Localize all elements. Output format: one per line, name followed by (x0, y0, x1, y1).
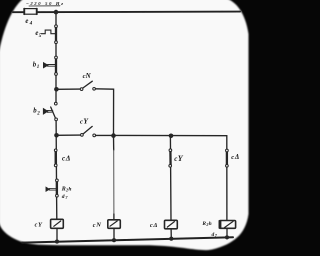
wire coil cN to bottom rail (113, 228, 115, 240)
node circle cY right (93, 134, 96, 137)
label R2h contact (61, 186, 72, 192)
node circle b1 top (55, 56, 58, 59)
wire coil cD to bottom rail (170, 229, 172, 239)
pushbutton b2 actuator (43, 109, 53, 115)
coil cD (165, 220, 178, 229)
wire V3 vertical (169, 136, 172, 221)
wire label underline (29, 5, 60, 7)
node circle V4 bottom (226, 164, 229, 167)
node circle b2 bottom (55, 118, 58, 121)
pushbutton b1 actuator (43, 63, 55, 68)
label b1 (33, 62, 40, 70)
node junction mid rail / V2 (111, 133, 116, 138)
label coil cD (150, 222, 157, 229)
node circle cN left (80, 88, 83, 91)
svg-text:4: 4 (29, 21, 33, 27)
contact b1 thick segment (55, 58, 57, 74)
svg-text:Δ: Δ (234, 153, 239, 161)
node circle R2h top (56, 179, 59, 182)
node junction mid rail / V3 (169, 134, 174, 139)
svg-text:c: c (62, 155, 65, 163)
contact cD left thick segment (55, 151, 57, 165)
label e4 (25, 18, 32, 27)
svg-text:e: e (25, 18, 28, 25)
node junction top rail / V1 (54, 10, 59, 15)
black photo background (0, 0, 256, 256)
node circle cN right (93, 87, 96, 90)
node circle cY left (81, 134, 84, 137)
svg-text:~220 50 Hz: ~220 50 Hz (26, 1, 63, 6)
contact b2 arm (51, 107, 56, 118)
wire V1 main vertical (55, 12, 58, 219)
white page with rounded corners (0, 0, 249, 250)
node circle V3 top (169, 149, 172, 152)
svg-text:Δ: Δ (152, 222, 157, 229)
svg-text:h: h (209, 221, 212, 227)
node circle b2 top (54, 102, 57, 105)
svg-text:N: N (85, 72, 92, 80)
contact cY V3 thick segment (169, 151, 172, 165)
label cD V4 (231, 153, 239, 161)
node circle R2h bottom (56, 194, 59, 197)
svg-text:Δ: Δ (65, 154, 71, 163)
label cD left (62, 154, 71, 163)
wire cN branch horizontal (56, 88, 80, 90)
label e5 (35, 30, 41, 39)
label b2 (33, 108, 40, 117)
label coil R2h (201, 221, 211, 227)
node circle e5 top (55, 25, 58, 28)
wire coil R2h to bottom rail (226, 228, 228, 237)
contact cD V4 thick segment (226, 151, 228, 165)
svg-text:N: N (95, 222, 101, 229)
label coil cN (93, 222, 101, 229)
node junction V1 / cN branch (54, 87, 59, 92)
coil cN (108, 220, 121, 229)
node circle b1 bottom (55, 73, 58, 76)
wire bottom rail (22, 237, 233, 242)
coil R2h d7 (219, 220, 236, 228)
svg-text:1: 1 (37, 65, 40, 70)
node circle V4 top (226, 149, 229, 152)
wire coil cY to bottom rail (56, 228, 58, 241)
fuse e4 (24, 9, 37, 15)
contact cY arm (83, 126, 92, 133)
wire V4 vertical (226, 136, 228, 221)
svg-text:h: h (68, 186, 71, 192)
label cY mid (80, 117, 89, 126)
label cN (83, 72, 92, 80)
wire top supply rail (13, 11, 240, 14)
node junction bottom rail / coil cD (169, 237, 173, 241)
node junction bottom rail / coil R2h (225, 235, 229, 239)
label ~220 50 Hz supply (26, 1, 63, 6)
node circle cD left bottom (54, 164, 57, 167)
contact e5 thick segment (55, 27, 57, 42)
contact R2h thick segment (56, 181, 58, 195)
label coil cY (35, 221, 43, 228)
node circle e5 bottom (55, 41, 58, 44)
label cY V3 (174, 154, 184, 163)
coil cY (51, 219, 64, 228)
wire V2 vertical to coil cN (113, 136, 115, 150)
wire mid rail right of cY contact (96, 134, 227, 136)
node junction bottom rail / coil cY (55, 240, 59, 244)
node junction bottom rail / coil cN (112, 238, 116, 242)
svg-text:d: d (62, 194, 65, 200)
pushbutton R2h actuator (46, 187, 56, 191)
wire cN to V2 corner (96, 89, 114, 136)
svg-text:c: c (231, 154, 234, 161)
node circle V3 bottom (169, 164, 172, 167)
node circle cD left top (54, 149, 57, 152)
thermal element e5 hump (41, 30, 55, 34)
wire mid rail left of cY contact (56, 134, 80, 136)
node junction V1 / mid rail (54, 133, 59, 138)
label coil d7 (212, 232, 218, 238)
svg-text:2: 2 (36, 112, 40, 117)
label d7 contact (62, 194, 69, 200)
contact cN arm (83, 81, 92, 88)
